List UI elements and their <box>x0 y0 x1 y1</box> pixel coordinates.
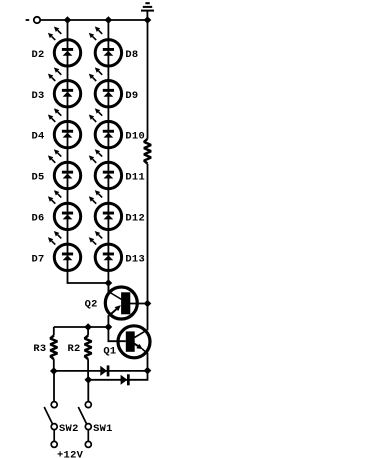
negative terminal <box>34 17 40 23</box>
svg-text:SW1: SW1 <box>93 423 113 435</box>
node: rail bottom <box>144 367 152 375</box>
node: Q2 base / rail <box>144 300 152 308</box>
node: R2 top <box>84 323 92 331</box>
node: LED columns bottom <box>105 279 113 287</box>
LED D3 <box>48 67 81 107</box>
wire left LED column <box>67 20 69 283</box>
svg-text:+12V: +12V <box>57 449 84 458</box>
wire Q2 collector lead <box>107 283 109 292</box>
LED D2 <box>48 27 81 67</box>
switch SW1 <box>78 402 91 448</box>
wire base rail (R3 top to Q junction) <box>54 326 109 328</box>
resistor R3 <box>50 327 57 371</box>
wire to SW1 <box>87 380 89 402</box>
svg-text:R3: R3 <box>33 343 46 355</box>
svg-text:D9: D9 <box>125 90 138 102</box>
resistor R1 (unlabeled, right rail) <box>144 139 151 164</box>
svg-text:D2: D2 <box>32 49 45 61</box>
svg-text:SW2: SW2 <box>59 423 79 435</box>
transistor Q1 <box>118 326 150 358</box>
svg-text:D10: D10 <box>125 131 145 143</box>
node: Q1 base junction <box>105 323 113 331</box>
LED D4 <box>48 108 81 148</box>
svg-text:D8: D8 <box>125 49 138 61</box>
node: left column top <box>64 16 72 24</box>
LED D7 <box>48 231 81 271</box>
wire bottom connector of LED columns <box>67 282 109 284</box>
ground <box>141 2 154 20</box>
LED D10 <box>89 108 122 148</box>
wire Q2 base to rail <box>130 303 148 305</box>
diode D14 <box>100 365 109 376</box>
wire diode line 2 <box>88 371 147 380</box>
svg-text:R2: R2 <box>68 343 81 355</box>
wire right rail lower <box>147 353 149 371</box>
svg-text:D6: D6 <box>32 213 45 225</box>
LED D12 <box>89 190 122 229</box>
svg-text:D11: D11 <box>125 172 145 184</box>
switch SW2 <box>44 402 57 448</box>
wire to SW2 <box>53 371 55 402</box>
wire right rail middle <box>147 164 149 331</box>
LED D5 <box>48 149 81 189</box>
node: R3 bottom / SW2 <box>50 367 58 375</box>
svg-text:D5: D5 <box>32 172 45 184</box>
minus sign <box>26 19 30 21</box>
wire right LED column <box>107 20 109 292</box>
resistor R2 <box>85 327 92 380</box>
LED D6 <box>48 190 81 229</box>
wire Q2 emitter lead <box>107 315 109 327</box>
node: ground junction <box>144 16 152 24</box>
svg-text:D13: D13 <box>125 253 145 265</box>
LED D13 <box>89 231 122 271</box>
svg-text:D12: D12 <box>125 213 145 225</box>
svg-text:Q1: Q1 <box>103 346 116 358</box>
wire diode line 1 <box>54 370 148 372</box>
LED D9 <box>89 67 122 107</box>
svg-text:D7: D7 <box>32 253 45 265</box>
wire top rail <box>40 19 147 21</box>
svg-text:D3: D3 <box>32 90 45 102</box>
svg-text:Q2: Q2 <box>85 298 98 310</box>
wire Q1 base <box>108 327 125 341</box>
LED D11 <box>89 149 122 189</box>
wire right rail upper <box>147 20 149 139</box>
LED D8 <box>89 27 122 67</box>
svg-text:D4: D4 <box>32 131 45 143</box>
node: right column top <box>105 16 113 24</box>
transistor Q2 <box>105 287 137 319</box>
node: R2 bottom / SW1 <box>85 376 93 384</box>
diode D15 <box>121 374 130 385</box>
